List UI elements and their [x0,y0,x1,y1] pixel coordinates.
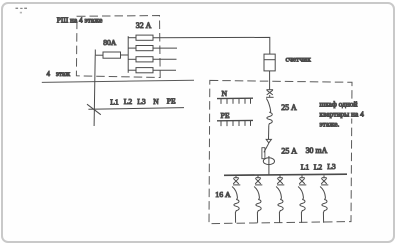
fuse F2 [136,46,153,51]
connector X terminal [278,177,283,179]
wire: stub from busbar [235,175,237,177]
svg-text:PE: PE [167,97,176,106]
RCD release triangle [266,139,271,143]
wire: stub from busbar [301,175,303,177]
wire: stub from busbar [257,175,259,177]
svg-text:L2: L2 [314,162,323,171]
distribution board dashed enclosure РШ [76,16,160,78]
wire: lead bus to fuse F1 [128,37,136,39]
wire: riser vertical feeder [94,55,95,126]
fuse F1 32A [136,35,153,40]
svg-text:25 А: 25 А [281,103,297,112]
breaker QF4 16A branch 3 [276,175,284,222]
fuse F4 [136,68,153,73]
breaker QF5 16A branch 4 [298,175,306,222]
scan speck marks top-left [16,8,28,14]
svg-text:L2: L2 [124,97,133,106]
node: riser junction with branch line [88,108,184,110]
PE busbar [217,111,253,126]
breaker blade [254,187,259,200]
breaker blade [276,187,281,200]
svg-text:этаже.: этаже. [320,119,340,128]
svg-text:квартиры на 4: квартиры на 4 [320,109,365,118]
svg-text:32 А: 32 А [136,21,152,30]
label: L1 L2 L3 over bus [301,162,336,171]
wire: riser stub above 80A fuse wire [94,50,96,56]
wire: lead bus to fuse F2 [128,47,136,49]
svg-text:16 А: 16 А [215,190,231,199]
RCD blade [264,143,269,152]
wire: fuse F4 output [153,69,176,71]
breaker blade [320,187,325,200]
wire [268,125,270,139]
svg-text:30 mA: 30 mA [306,146,328,155]
svg-text:PE: PE [221,111,230,120]
svg-text:этаж: этаж [56,70,70,78]
fuse F0 80A [103,52,121,58]
svg-text:счетчик: счетчик [286,54,312,63]
wire: fuse F3 output [153,58,177,60]
svg-text:шкаф одной: шкаф одной [320,99,358,108]
thermal element and outgoing wire [234,200,239,223]
svg-text:N: N [222,89,228,98]
wire: stub from busbar [323,175,325,177]
wire: meter drop vertical [269,53,271,55]
branch circuit breakers group 16A [232,175,328,222]
breaker QF1 25A blade [266,98,270,112]
breaker QF2 16A branch 1 [232,175,240,222]
breaker QF3 16A branch 2 [254,175,262,222]
label: шкаф одной квартиры на 4 этаже [320,99,365,128]
connector X terminal [234,177,239,179]
breaker QF6 16A branch 5 [320,175,328,222]
cable slash mark [87,104,101,115]
svg-text:25 А: 25 А [281,146,297,155]
svg-text:L3: L3 [327,162,336,171]
meter PI (счетчик) [264,54,275,71]
wire: right lead of fuse F0 to column bus [121,54,129,56]
wire: fuse F1 to meter drop (phase L1) [153,37,270,54]
label: L1 L2 L3 N PE riser conductors [110,97,176,107]
wire: left lead of fuse F0 [95,54,103,56]
wire: stub from busbar [279,175,281,177]
wire: fuse column bus vertical [127,36,129,73]
svg-text:4: 4 [47,70,51,78]
breaker QF1 thermal element [267,112,272,125]
thermal element and outgoing wire [278,200,283,223]
RCD differential transformer ellipse [263,158,274,165]
svg-text:L1: L1 [301,163,310,172]
svg-text:L1: L1 [110,97,119,106]
connector X terminal [256,177,261,179]
wire: meter output down to cabinet [269,71,271,90]
svg-text:N: N [153,97,159,106]
apartment cabinet dashed enclosure [209,80,352,223]
svg-text:L3: L3 [137,97,146,106]
thermal element and outgoing wire [300,200,305,223]
wire: fuse F2 output [153,47,177,49]
connector X terminal [322,177,327,179]
thermal element and outgoing wire [322,200,327,223]
connector X terminal [300,177,305,179]
svg-text:80А: 80А [103,38,117,47]
N busbar [217,89,253,104]
distribution busbar [224,174,347,175]
connector X terminal main input [266,90,274,98]
RCD release rectangle [262,148,265,159]
svg-text:РШ на 4 этаже: РШ на 4 этаже [57,16,103,25]
wire: lead bus to fuse F3 [128,58,136,60]
wire: lead bus to fuse F4 [128,69,136,71]
thermal element and outgoing wire [256,200,261,223]
breaker blade [232,187,237,200]
wire through transformer to bus [268,156,270,175]
breaker blade [298,187,303,200]
fuse F3 [136,57,153,62]
floor boundary line 4th storey [42,80,194,82]
